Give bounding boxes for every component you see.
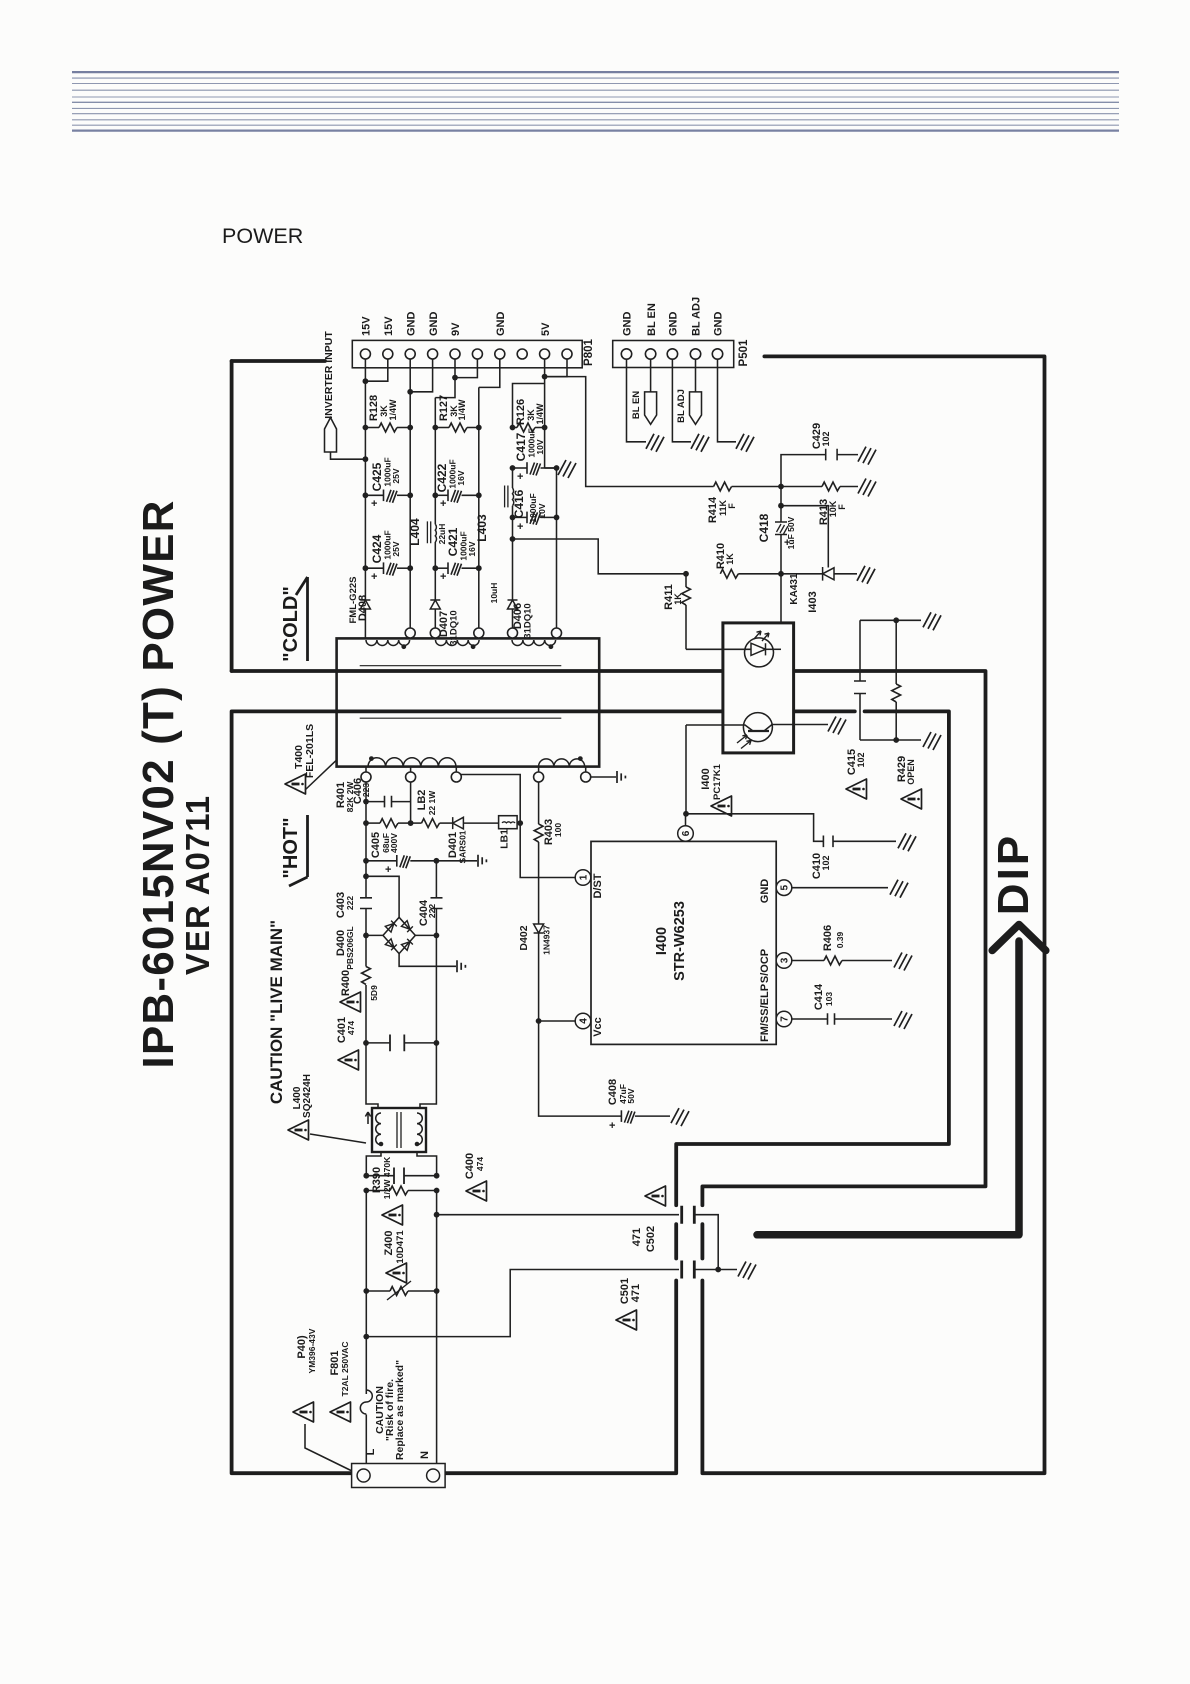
inductor L403 10uH xyxy=(505,486,508,508)
transformer secondary phase dots xyxy=(401,644,406,649)
wire to C501 xyxy=(366,1270,679,1337)
P501 ground pin 5 xyxy=(718,360,737,442)
svg-text:10D471: 10D471 xyxy=(395,1230,406,1264)
IC pin 7 FM/SS/ELP xyxy=(776,1011,792,1027)
svg-text:25V: 25V xyxy=(391,468,401,483)
IC pin 3 S/OCP xyxy=(776,953,792,969)
svg-text:1uF 50V: 1uF 50V xyxy=(786,516,796,549)
svg-text:STR-W6253: STR-W6253 xyxy=(672,901,688,981)
capacitor C429 102 xyxy=(781,455,826,487)
diode D402 1N4937 xyxy=(534,924,544,933)
capacitor C422 1000uF 16V xyxy=(435,494,448,496)
capacitor C401 474 xyxy=(366,1042,390,1044)
svg-text:I403: I403 xyxy=(807,591,819,612)
diode D406 31DQ10 xyxy=(508,600,518,609)
IC pin 1 D/ST xyxy=(575,870,591,886)
svg-text:1/2W 470K: 1/2W 470K xyxy=(382,1156,392,1199)
capacitor C404 222 xyxy=(431,898,443,909)
svg-text:1: 1 xyxy=(579,874,590,880)
svg-text:GND: GND xyxy=(495,312,507,337)
net flag BL EN xyxy=(650,360,652,392)
svg-text:+: + xyxy=(517,521,523,533)
svg-text:1K: 1K xyxy=(673,593,683,605)
capacitor C406 223 xyxy=(366,801,385,803)
svg-text:R400: R400 xyxy=(340,970,352,996)
svg-text:102: 102 xyxy=(856,752,866,767)
wire C415/R429 top xyxy=(860,619,921,621)
wire C415/R429 bottom xyxy=(860,739,921,741)
svg-text:102: 102 xyxy=(821,431,831,446)
svg-text:474: 474 xyxy=(475,1157,485,1171)
wire choke bottom jogs xyxy=(366,1152,381,1176)
svg-text:25V: 25V xyxy=(391,541,401,556)
svg-text:YM396-43V: YM396-43V xyxy=(307,1328,317,1373)
varistor Z400 10D471 xyxy=(366,1290,390,1292)
wire hot left rail xyxy=(366,782,378,1108)
resistor R414 11K F xyxy=(714,482,732,491)
svg-text:GND: GND xyxy=(713,312,725,337)
wire opto collector to ground xyxy=(794,724,828,726)
svg-text:VER A0711: VER A0711 xyxy=(179,795,216,975)
capacitor C424 1000uF 25V xyxy=(365,567,383,569)
wire: cold boundary main loop xyxy=(232,356,1045,1473)
svg-text:474: 474 xyxy=(346,1021,356,1035)
wire drain line xyxy=(461,775,576,878)
connector P501 xyxy=(613,341,734,368)
svg-text:22 1W: 22 1W xyxy=(427,790,437,816)
svg-text:222: 222 xyxy=(345,896,355,910)
svg-text:15V: 15V xyxy=(361,316,373,336)
resistor R400 5D9 xyxy=(362,967,371,985)
wire GND rail pins 3,4 xyxy=(409,359,411,628)
svg-text:+: + xyxy=(371,571,377,583)
wire IC pin5 ground xyxy=(792,887,888,889)
inductor L404 22uH xyxy=(427,521,430,543)
capacitor C425 1000uF 25V xyxy=(365,494,383,496)
svg-text:I400: I400 xyxy=(700,768,712,789)
svg-text:10V: 10V xyxy=(537,503,547,518)
wire 5V rail xyxy=(512,468,514,488)
svg-text:PBS206GL: PBS206GL xyxy=(345,926,355,969)
svg-text:+: + xyxy=(440,571,446,583)
svg-text:4: 4 xyxy=(579,1018,590,1024)
wire to C502 xyxy=(437,1214,679,1216)
wire 5V pin9 xyxy=(544,359,546,428)
svg-text:"HOT": "HOT" xyxy=(280,817,302,878)
svg-text:FM/SS/ELP: FM/SS/ELP xyxy=(759,984,771,1042)
svg-text:5: 5 xyxy=(780,884,791,890)
transformer primary windings xyxy=(368,758,456,767)
svg-text:P801: P801 xyxy=(583,338,595,365)
wire pin10 join xyxy=(545,359,567,377)
small arrow at choke xyxy=(365,1112,370,1124)
svg-text:GND: GND xyxy=(428,312,440,337)
svg-text:50V: 50V xyxy=(626,1088,636,1103)
P501 ground pin 1 xyxy=(627,360,647,442)
wire IC pin6 node xyxy=(685,814,687,826)
optocoupler phototransistor xyxy=(743,713,772,742)
svg-text:CAUTION "LIVE MAIN": CAUTION "LIVE MAIN" xyxy=(267,920,286,1104)
capacitor C410 102 xyxy=(686,814,823,842)
wire: hot boundary loop xyxy=(232,711,949,1473)
svg-text:10V: 10V xyxy=(535,439,545,454)
svg-text:471: 471 xyxy=(630,1284,642,1302)
svg-text:L404: L404 xyxy=(408,518,422,546)
svg-text:0.39: 0.39 xyxy=(835,931,845,948)
svg-text:D402: D402 xyxy=(518,925,530,950)
svg-text:5V: 5V xyxy=(540,322,552,336)
bridge rectifier D400 PBS206GL xyxy=(383,917,415,953)
svg-text:5D9: 5D9 xyxy=(369,985,379,1001)
capacitor C421 1000uF 16V xyxy=(435,567,448,569)
resistor R401 82K 2W xyxy=(366,822,380,824)
top scan line band xyxy=(72,72,1119,131)
svg-text:OPEN: OPEN xyxy=(906,759,916,785)
wire: cold boundary (left vertical) xyxy=(230,361,234,671)
transformer core lines xyxy=(360,666,562,719)
wire feed to R414 xyxy=(545,377,714,487)
capacitor C502 471 xyxy=(682,1206,695,1224)
svg-text:+: + xyxy=(385,864,391,876)
IC I400 STR-W6253 box xyxy=(591,841,776,1044)
resistor R128 3K 1/4W xyxy=(365,427,379,429)
svg-text:FEL-201LS: FEL-201LS xyxy=(304,724,316,778)
svg-text:T2AL 250VAC: T2AL 250VAC xyxy=(340,1342,350,1397)
svg-text:GND: GND xyxy=(668,312,680,337)
svg-text:Z400: Z400 xyxy=(383,1230,395,1255)
shunt regulator KA431 I403 xyxy=(781,506,828,568)
svg-text:N: N xyxy=(419,1451,431,1459)
svg-text:222: 222 xyxy=(427,904,437,918)
svg-text:GND: GND xyxy=(622,312,634,337)
wire feed to R410 (from 5V rail) xyxy=(513,539,687,574)
svg-text:LB1: LB1 xyxy=(499,829,511,849)
svg-text:PC17K1: PC17K1 xyxy=(712,763,723,800)
transformer primary phase dots xyxy=(369,756,374,761)
diode D401 SARS01 xyxy=(440,822,453,824)
resistor R403 100 xyxy=(538,782,540,824)
transformer T400 body box xyxy=(337,638,600,766)
svg-text:+: + xyxy=(609,1120,615,1132)
diode D408 FML-G22S xyxy=(360,600,370,609)
capacitor C417 1000uF 10V xyxy=(513,467,528,469)
svg-text:D408: D408 xyxy=(357,595,369,621)
svg-text:C418: C418 xyxy=(757,513,771,542)
wire pin2 join xyxy=(365,359,387,381)
svg-text:L: L xyxy=(365,1448,377,1455)
capacitor C408 47uF 50V xyxy=(539,1021,622,1116)
capacitor C405 68uF 400V xyxy=(366,860,397,862)
svg-text:223: 223 xyxy=(361,783,371,797)
fuse F801 T2AL 250VAC xyxy=(360,1390,372,1414)
ferrite bead LB1 xyxy=(499,816,517,829)
svg-text:Vcc: Vcc xyxy=(592,1017,604,1037)
svg-text:INVERTER INPUT: INVERTER INPUT xyxy=(323,331,335,419)
AC terminal block xyxy=(352,1464,446,1488)
svg-text:D/ST: D/ST xyxy=(592,873,604,898)
wire C416 right rail xyxy=(556,468,558,628)
wire bridge DC+ xyxy=(366,876,399,917)
svg-text:1/4W: 1/4W xyxy=(535,403,545,425)
svg-text:10uH: 10uH xyxy=(489,583,499,604)
transformer T400 secondary windings xyxy=(366,640,410,645)
capacitor C415 102 xyxy=(859,620,861,681)
svg-text:31DQ10: 31DQ10 xyxy=(523,603,534,638)
svg-text:7: 7 xyxy=(780,1016,791,1022)
wire right mains rail xyxy=(436,1191,438,1464)
capacitor C418 1uF 50V xyxy=(780,487,782,523)
capacitor C414 103 xyxy=(792,1018,828,1020)
svg-text:DIP: DIP xyxy=(989,833,1038,915)
svg-text:BL ADJ: BL ADJ xyxy=(691,297,703,336)
wire transformer pin2 to snubber xyxy=(410,782,412,823)
capacitor C403 222 xyxy=(360,898,372,909)
wire R126 drop xyxy=(544,428,546,469)
svg-text:82K 2W: 82K 2W xyxy=(345,781,355,813)
svg-text:L403: L403 xyxy=(475,514,489,542)
svg-text:6: 6 xyxy=(681,830,692,836)
resistor R429 OPEN xyxy=(895,620,897,684)
transformer secondary pin circles xyxy=(405,628,415,638)
svg-text:400V: 400V xyxy=(389,833,399,853)
resistor R406 0.39 xyxy=(792,960,824,962)
resistor R413 10K F xyxy=(781,486,822,488)
svg-text:103: 103 xyxy=(824,992,834,1006)
svg-text:471: 471 xyxy=(631,1228,643,1246)
capacitor C400 474 xyxy=(366,1175,394,1177)
capacitor C501 471 xyxy=(682,1261,695,1279)
svg-text:3: 3 xyxy=(780,957,791,963)
wire hot right rail xyxy=(420,861,436,1108)
net flag INVERTER INPUT xyxy=(325,418,337,453)
capacitor C416 1000uF 10V xyxy=(513,516,528,518)
wire opto emitter to IC pin6 xyxy=(685,725,687,814)
svg-text:+: + xyxy=(371,498,377,510)
svg-text:1/4W: 1/4W xyxy=(388,399,398,421)
wire left mains rail xyxy=(365,1191,367,1395)
svg-text:16V: 16V xyxy=(456,470,466,485)
resistor LB2 22 1W xyxy=(411,822,422,824)
svg-text:C416: C416 xyxy=(512,489,526,518)
svg-text:POWER: POWER xyxy=(222,224,303,248)
wire IC pin4 Vcc node xyxy=(539,1020,575,1022)
svg-text:R406: R406 xyxy=(822,925,834,951)
resistor R127 3K 1/4W xyxy=(435,427,449,429)
optocoupler LED xyxy=(745,638,774,667)
svg-text:+: + xyxy=(517,471,523,483)
resistor R410 1K xyxy=(720,569,738,578)
svg-text:BL ADJ: BL ADJ xyxy=(676,389,687,423)
wire GND rail pin 7 xyxy=(479,359,500,387)
svg-text:100: 100 xyxy=(553,823,563,837)
net flag BL ADJ xyxy=(695,360,697,392)
svg-text:SARS01: SARS01 xyxy=(458,830,468,863)
svg-text:SQ2424H: SQ2424H xyxy=(302,1074,313,1118)
svg-text:S/OCP: S/OCP xyxy=(759,949,771,983)
DIP arrow xyxy=(757,925,1046,1235)
svg-text:BL EN: BL EN xyxy=(646,303,658,336)
svg-text:"COLD": "COLD" xyxy=(280,586,302,662)
svg-text:KA431: KA431 xyxy=(789,573,800,605)
svg-text:I400: I400 xyxy=(654,927,670,955)
IC pin 6 xyxy=(678,826,694,842)
svg-text:Replace as marked": Replace as marked" xyxy=(394,1360,406,1460)
svg-text:GND: GND xyxy=(759,879,771,904)
resistor R411 1K xyxy=(685,574,687,587)
label HOT xyxy=(280,815,308,886)
IC pin 5 GND xyxy=(776,880,792,896)
svg-text:1K: 1K xyxy=(725,553,735,565)
svg-text:16V: 16V xyxy=(467,541,477,556)
svg-text:15V: 15V xyxy=(383,316,395,336)
svg-text:+: + xyxy=(440,498,446,510)
wire 5V rail jog xyxy=(513,384,545,428)
choke L400 SQ2424H xyxy=(372,1108,426,1152)
wire 9V rail xyxy=(435,359,455,398)
transformer pin5 ground xyxy=(591,776,616,778)
svg-text:F: F xyxy=(837,504,847,510)
resistor R390 1/2W 470K xyxy=(366,1190,390,1192)
svg-text:IPB-6015NV02 (T) POWER: IPB-6015NV02 (T) POWER xyxy=(134,499,183,1068)
svg-text:9V: 9V xyxy=(450,322,462,336)
svg-text:BL EN: BL EN xyxy=(631,391,642,419)
connector P801 xyxy=(352,340,582,367)
wire 15V rail xyxy=(364,359,366,600)
svg-text:102: 102 xyxy=(821,855,831,870)
diode D407 31DQ10 xyxy=(430,600,440,609)
label COLD xyxy=(280,577,308,662)
svg-text:P501: P501 xyxy=(738,339,750,366)
svg-text:1N4937: 1N4937 xyxy=(542,925,552,955)
svg-text:GND: GND xyxy=(405,312,417,337)
resistor R126 3K 1/4W xyxy=(513,427,518,429)
svg-text:C502: C502 xyxy=(645,1226,657,1252)
transformer primary pin circles xyxy=(365,767,367,772)
svg-text:F: F xyxy=(727,503,737,509)
IC pin 4 Vcc xyxy=(575,1013,591,1029)
P501 ground pin 3 xyxy=(672,360,691,442)
wire pin6 join xyxy=(455,359,477,378)
wire: thick inverter-input stub xyxy=(232,359,325,363)
optocoupler box xyxy=(723,623,794,753)
svg-text:1/4W: 1/4W xyxy=(457,399,467,421)
